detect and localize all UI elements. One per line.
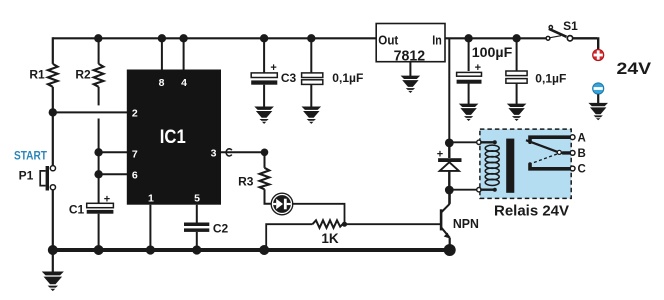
node In rail junction 100uF [464, 34, 472, 42]
node bottom rail junction P1 [48, 245, 58, 255]
node top rail junction pin4 [179, 34, 187, 42]
wire 0.1uF right top lead [516, 38, 518, 71]
wire pin5 to C2 [196, 205, 198, 223]
wire C3 top lead [263, 38, 265, 73]
ground 100uF [459, 104, 479, 121]
svg-text:2: 2 [132, 108, 138, 120]
wire bottom rail (ground net) [53, 248, 450, 252]
wire 0.1uF right to ground [516, 83, 518, 104]
wire 1K left lead down to bottom rail [266, 224, 312, 250]
resistor 1K [313, 220, 345, 228]
relay contact B stub [563, 151, 570, 154]
node bottom rail junction C2 [192, 245, 201, 254]
relay contact A bar [530, 137, 570, 142]
capacitor 0.1uF left [302, 73, 323, 85]
wire top rail (7812 Out net) [53, 37, 376, 39]
node emitter junction on bottom rail [444, 244, 456, 256]
svg-text:+: + [475, 62, 481, 74]
terminal -24V [593, 83, 604, 94]
LED indicator diode [271, 193, 293, 215]
terminal +24V [593, 49, 604, 60]
svg-text:5: 5 [194, 193, 200, 205]
svg-text:6: 6 [132, 170, 138, 182]
wire LED to 1K right side [292, 204, 345, 224]
svg-text:R1: R1 [29, 67, 45, 81]
wire pin7 [99, 151, 128, 153]
svg-text:C3: C3 [281, 71, 297, 85]
ground 7812 [401, 76, 421, 93]
wire 100uF to ground [468, 83, 470, 104]
wire R3 bottom lead to LED [265, 189, 273, 204]
wire 0.1uF left top lead [310, 38, 312, 73]
svg-text:A: A [578, 132, 586, 144]
ground 0.1uF right [507, 104, 527, 121]
node top rail junction C3 [260, 34, 268, 42]
relay armature (moving contact) [526, 140, 558, 152]
svg-text:B: B [578, 148, 586, 160]
node junction 1K right [342, 222, 347, 227]
capacitor C1 [87, 193, 114, 213]
wire In rail [445, 37, 546, 39]
wire pin4 [183, 38, 185, 70]
capacitor C3 [251, 62, 277, 85]
svg-text:C2: C2 [213, 221, 229, 235]
svg-text:IC1: IC1 [160, 127, 186, 148]
node junction pin7 [94, 148, 102, 156]
wire S1 to +terminal [573, 37, 598, 49]
svg-text:24V: 24V [617, 60, 652, 78]
wire C1 to bottom rail [98, 214, 100, 250]
ground 24V negative [588, 103, 608, 120]
resistor R1 [48, 64, 58, 87]
svg-text:0,1µF: 0,1µF [332, 71, 363, 85]
svg-text:S1: S1 [563, 19, 578, 33]
relay coil spring [485, 145, 499, 185]
wire R2 branch lower (crosses pin2 wire with gap) to pins 7,6 and C1 [98, 119, 100, 204]
svg-text:+: + [270, 62, 276, 74]
wire left column from top rail to P1 [52, 37, 54, 165]
svg-text:+: + [437, 148, 443, 160]
relay coil terminal bottom [477, 188, 481, 192]
svg-text:P1: P1 [19, 169, 34, 183]
node junction pin6 [94, 170, 102, 178]
wire -terminal to ground [597, 94, 599, 103]
svg-text:R2: R2 [75, 67, 91, 81]
svg-text:NPN: NPN [453, 216, 479, 231]
wire collector down [448, 190, 450, 204]
svg-text:4: 4 [181, 77, 187, 89]
node top rail junction 0.1uF left [307, 34, 315, 42]
capacitor 0.1uF right [506, 71, 527, 83]
switch S1 [546, 26, 573, 42]
wire R3 top lead [264, 152, 266, 168]
svg-text:C: C [578, 164, 586, 176]
wire +24V column from In rail down to relay [448, 38, 450, 143]
svg-text:3: 3 [211, 148, 217, 160]
wire pin6 [99, 173, 128, 175]
diode D1 flyback [437, 148, 462, 171]
wire P1 bottom to bottom rail [52, 190, 54, 250]
svg-text:0,1µF: 0,1µF [535, 72, 566, 86]
ground C3 [254, 107, 274, 124]
svg-text:R3: R3 [238, 174, 254, 188]
wire pin2 [53, 111, 128, 113]
svg-text:7: 7 [132, 149, 138, 161]
regulator 7812 box [376, 24, 445, 65]
wire coil top feed [449, 141, 477, 143]
op-amp U1 timer IC1 body [127, 70, 221, 205]
relay terminal A [570, 135, 575, 140]
wire diode section [448, 143, 450, 190]
ground 0.1uF left [302, 107, 322, 124]
node pin3 loop mark [226, 149, 232, 156]
node bottom rail junction 1K return [259, 245, 269, 255]
node top rail junction pin8 [158, 34, 166, 42]
svg-text:Out: Out [378, 33, 399, 47]
relay core bar [506, 139, 514, 193]
relay dashed throw line [532, 154, 558, 163]
wire 100uF top lead [468, 38, 470, 71]
wire 7812 ground stub [409, 62, 411, 76]
node top rail junction R2 [94, 34, 102, 42]
node bottom rail junction C1 [94, 245, 104, 255]
resistor R3 [260, 168, 270, 190]
wire base of NPN [345, 223, 442, 225]
wire pin1 to bottom rail [149, 205, 151, 250]
svg-text:+: + [104, 193, 110, 205]
wire coil stub top [481, 141, 494, 143]
transistor Q1 NPN [441, 190, 450, 250]
svg-text:Relais 24V: Relais 24V [494, 204, 569, 220]
wire C3 to ground [263, 85, 265, 107]
node junction R1/P1 column to pin2 [49, 108, 57, 116]
node In rail junction 0.1uF right [512, 34, 520, 42]
svg-text:In: In [432, 33, 442, 47]
relay terminal B [570, 151, 575, 156]
node bottom rail junction pin1 [146, 245, 155, 254]
ground main [52, 250, 54, 272]
capacitor 100uF [457, 62, 482, 84]
svg-text:C1: C1 [69, 202, 85, 216]
svg-text:1: 1 [148, 193, 154, 205]
capacitor C2 [184, 223, 209, 232]
wire 0.1uF left to ground [310, 85, 312, 107]
wire C2 to bottom rail [196, 232, 198, 250]
svg-text:1K: 1K [321, 231, 339, 246]
relay contact C bar [530, 164, 570, 169]
wire pin3 output [221, 151, 265, 153]
node junction diode top / coil top [445, 139, 454, 148]
node junction pin3/R3 [261, 149, 269, 157]
wire coil bottom return [449, 189, 477, 191]
svg-text:8: 8 [159, 77, 165, 89]
relay coil terminal top [477, 140, 481, 144]
svg-text:START: START [14, 149, 48, 163]
wire coil stub bottom [481, 188, 494, 190]
wire pin8 [161, 38, 163, 70]
svg-text:100µF: 100µF [472, 45, 513, 60]
node junction diode bottom / coil bottom / collector [445, 186, 454, 195]
wire R2 branch upper [98, 38, 100, 105]
relay terminal C [570, 166, 575, 171]
pushbutton P1 [40, 166, 55, 191]
relay K1 box [480, 129, 571, 198]
resistor R2 [94, 64, 104, 87]
